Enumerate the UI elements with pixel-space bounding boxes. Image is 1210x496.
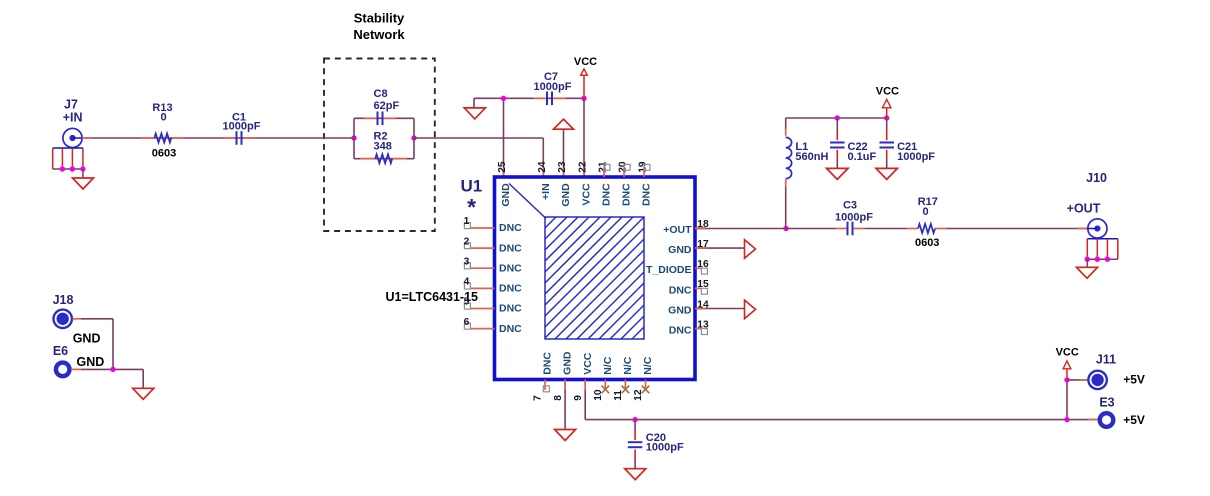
resistor R2 pins <box>360 158 375 160</box>
node C20 <box>632 417 637 422</box>
node J18/E6 <box>110 367 115 372</box>
wire J18 <box>73 318 82 320</box>
capacitor C1 pins <box>223 137 235 139</box>
wire pin8 to ground <box>564 380 566 430</box>
node C7 left <box>501 96 506 101</box>
pin 5 DNC <box>470 308 494 310</box>
wire VCC tap to J11 <box>1066 380 1068 420</box>
wire pin23 <box>563 129 565 177</box>
svg-text:DNC: DNC <box>601 183 613 206</box>
pin 6 DNC <box>470 328 494 330</box>
svg-text:J7: J7 <box>64 98 78 112</box>
capacitor C21 <box>886 118 888 131</box>
svg-text:GND: GND <box>560 183 572 207</box>
node L1 junction <box>783 226 788 231</box>
svg-text:24: 24 <box>537 161 548 173</box>
wire E6 to ground <box>72 368 81 370</box>
node long wire to E3 <box>1064 417 1069 422</box>
svg-text:1000pF: 1000pF <box>223 120 261 132</box>
svg-text:348: 348 <box>374 140 392 152</box>
svg-text:0603: 0603 <box>152 147 176 159</box>
svg-text:U1: U1 <box>461 176 483 195</box>
svg-text:DNC: DNC <box>542 352 554 375</box>
svg-text:12: 12 <box>633 389 644 401</box>
svg-text:5: 5 <box>464 297 470 308</box>
svg-text:DNC: DNC <box>499 323 522 335</box>
svg-text:1000pF: 1000pF <box>835 211 873 223</box>
node stability left <box>351 135 356 140</box>
capacitor C8 <box>377 112 379 126</box>
wire J10 shield to ground <box>1086 259 1088 267</box>
node C22 <box>835 115 840 120</box>
ground at C20 <box>625 469 646 480</box>
svg-text:GND: GND <box>668 244 692 256</box>
svg-text:GND: GND <box>73 331 101 345</box>
svg-text:VCC: VCC <box>581 183 593 206</box>
svg-text:VCC: VCC <box>574 56 597 68</box>
off-page arrow GND <box>745 300 756 319</box>
svg-text:N/C: N/C <box>602 356 614 375</box>
svg-text:N/C: N/C <box>642 356 654 375</box>
svg-text:GND: GND <box>77 355 105 369</box>
svg-text:C3: C3 <box>843 200 857 212</box>
capacitor C7 <box>546 92 548 106</box>
svg-text:+IN: +IN <box>540 183 552 200</box>
wire VCC rail top <box>786 117 887 119</box>
inductor L1 <box>785 118 787 130</box>
wire C7 rail <box>474 97 584 99</box>
svg-text:560nH: 560nH <box>795 151 828 163</box>
svg-text:GND: GND <box>668 305 692 317</box>
wire C3 to R17 <box>865 228 907 230</box>
svg-text:DNC: DNC <box>641 183 653 206</box>
svg-text:+OUT: +OUT <box>663 224 692 236</box>
ground at C21 <box>876 168 898 179</box>
capacitor C8 pins <box>364 117 378 119</box>
capacitor C20 <box>634 420 636 432</box>
ground at pin8 <box>555 430 576 441</box>
svg-text:DNC: DNC <box>499 283 522 295</box>
svg-text:1000pF: 1000pF <box>897 151 935 163</box>
svg-text:10: 10 <box>593 389 604 401</box>
svg-text:3: 3 <box>464 256 470 267</box>
svg-text:1000pF: 1000pF <box>646 442 684 454</box>
pin 3 DNC <box>470 267 494 269</box>
svg-text:+5V: +5V <box>1123 413 1145 427</box>
capacitor C22 <box>836 118 838 131</box>
svg-text:VCC: VCC <box>876 86 899 98</box>
svg-text:1: 1 <box>464 216 470 227</box>
off-page arrow GND <box>745 240 756 259</box>
wire stability frame <box>353 118 355 158</box>
svg-text:7: 7 <box>533 395 544 401</box>
svg-text:20: 20 <box>618 161 629 173</box>
capacitor C3 pins <box>836 228 848 230</box>
svg-text:DNC: DNC <box>499 222 522 234</box>
wire J7 to stability network <box>82 137 354 139</box>
svg-text:DNC: DNC <box>499 262 522 274</box>
svg-text:DNC: DNC <box>669 325 692 337</box>
svg-text:22: 22 <box>578 161 589 173</box>
svg-text:6: 6 <box>464 317 470 328</box>
svg-text:2: 2 <box>464 236 470 247</box>
svg-text:Network: Network <box>353 27 405 42</box>
pin 1 DNC <box>470 227 494 229</box>
pin 2 DNC <box>470 247 494 249</box>
svg-text:GND: GND <box>562 351 574 375</box>
svg-text:T_DIODE: T_DIODE <box>646 264 692 276</box>
svg-text:VCC: VCC <box>582 352 594 375</box>
svg-text:0: 0 <box>160 111 166 123</box>
resistor R17 pins <box>907 228 918 230</box>
resistor R13 <box>154 134 171 143</box>
wire R17 to J10 <box>946 228 1087 230</box>
wire L1 junction to C3 <box>786 228 836 230</box>
svg-text:0.1uF: 0.1uF <box>848 151 877 163</box>
svg-text:+OUT: +OUT <box>1067 201 1101 215</box>
svg-text:DNC: DNC <box>499 303 522 315</box>
svg-text:4: 4 <box>464 277 470 288</box>
svg-text:C8: C8 <box>374 88 388 100</box>
svg-text:N/C: N/C <box>622 356 634 375</box>
wire to E3 <box>1088 419 1097 421</box>
svg-text:0603: 0603 <box>915 237 939 249</box>
wire pin25 to C7 rail <box>503 98 505 177</box>
svg-text:GND: GND <box>500 183 512 207</box>
U1 pad connect line <box>509 184 546 219</box>
ground at J7 <box>73 178 94 189</box>
dashed box stability network <box>324 59 435 232</box>
resistor R13 pins <box>141 137 154 139</box>
pin 4 DNC <box>470 287 494 289</box>
svg-text:25: 25 <box>497 161 508 173</box>
svg-text:J10: J10 <box>1086 171 1107 185</box>
svg-text:VCC: VCC <box>1056 347 1079 359</box>
wire stability to pin24 <box>414 137 543 139</box>
ground at J10 <box>1077 267 1098 278</box>
J7 ground shield pins <box>53 147 83 149</box>
ground at J18/E6 <box>133 388 154 399</box>
svg-text:21: 21 <box>598 161 609 173</box>
svg-text:9: 9 <box>573 395 584 401</box>
wire to off-page arrow <box>695 247 745 249</box>
resistor R17 <box>918 224 935 233</box>
wire J7 shield to ground <box>82 169 84 178</box>
node C21 VCC <box>884 115 889 120</box>
svg-text:+IN: +IN <box>63 111 83 125</box>
wire to ground left of C7 <box>473 98 475 108</box>
node C7 right / pin22 VCC <box>581 96 586 101</box>
svg-text:DNC: DNC <box>669 284 692 296</box>
ground at C22 <box>827 168 849 179</box>
node J11 tap <box>1064 377 1069 382</box>
svg-text:E3: E3 <box>1099 396 1114 410</box>
capacitor C7 pins <box>534 97 548 99</box>
svg-text:23: 23 <box>557 161 568 173</box>
svg-text:1000pF: 1000pF <box>534 81 572 93</box>
svg-text:19: 19 <box>638 161 649 173</box>
svg-text:DNC: DNC <box>499 242 522 254</box>
svg-text:+5V: +5V <box>1123 373 1145 387</box>
resistor R2 <box>375 154 392 163</box>
power arrow at pin23 <box>554 119 574 129</box>
svg-text:E6: E6 <box>53 344 68 358</box>
svg-text:J18: J18 <box>53 293 74 307</box>
wire to off-page arrow <box>695 308 745 310</box>
ground at C7 <box>464 108 485 119</box>
svg-text:8: 8 <box>553 395 564 401</box>
U1 exposed pad hatch <box>545 217 644 339</box>
op-amp U1 LTC6431-15 body <box>495 177 696 380</box>
wire pin18 +OUT <box>695 228 786 230</box>
node stability right <box>411 135 416 140</box>
svg-text:J11: J11 <box>1096 352 1116 366</box>
svg-text:0: 0 <box>923 206 929 218</box>
wire pin22 down <box>583 98 585 177</box>
svg-text:62pF: 62pF <box>374 100 400 112</box>
J10 ground shield pins <box>1087 238 1118 240</box>
capacitor C3 <box>847 222 849 236</box>
wire pin9 VCC down and right <box>584 380 586 420</box>
svg-text:DNC: DNC <box>621 183 633 206</box>
capacitor C1 <box>236 131 238 145</box>
svg-text:Stability: Stability <box>354 11 405 26</box>
